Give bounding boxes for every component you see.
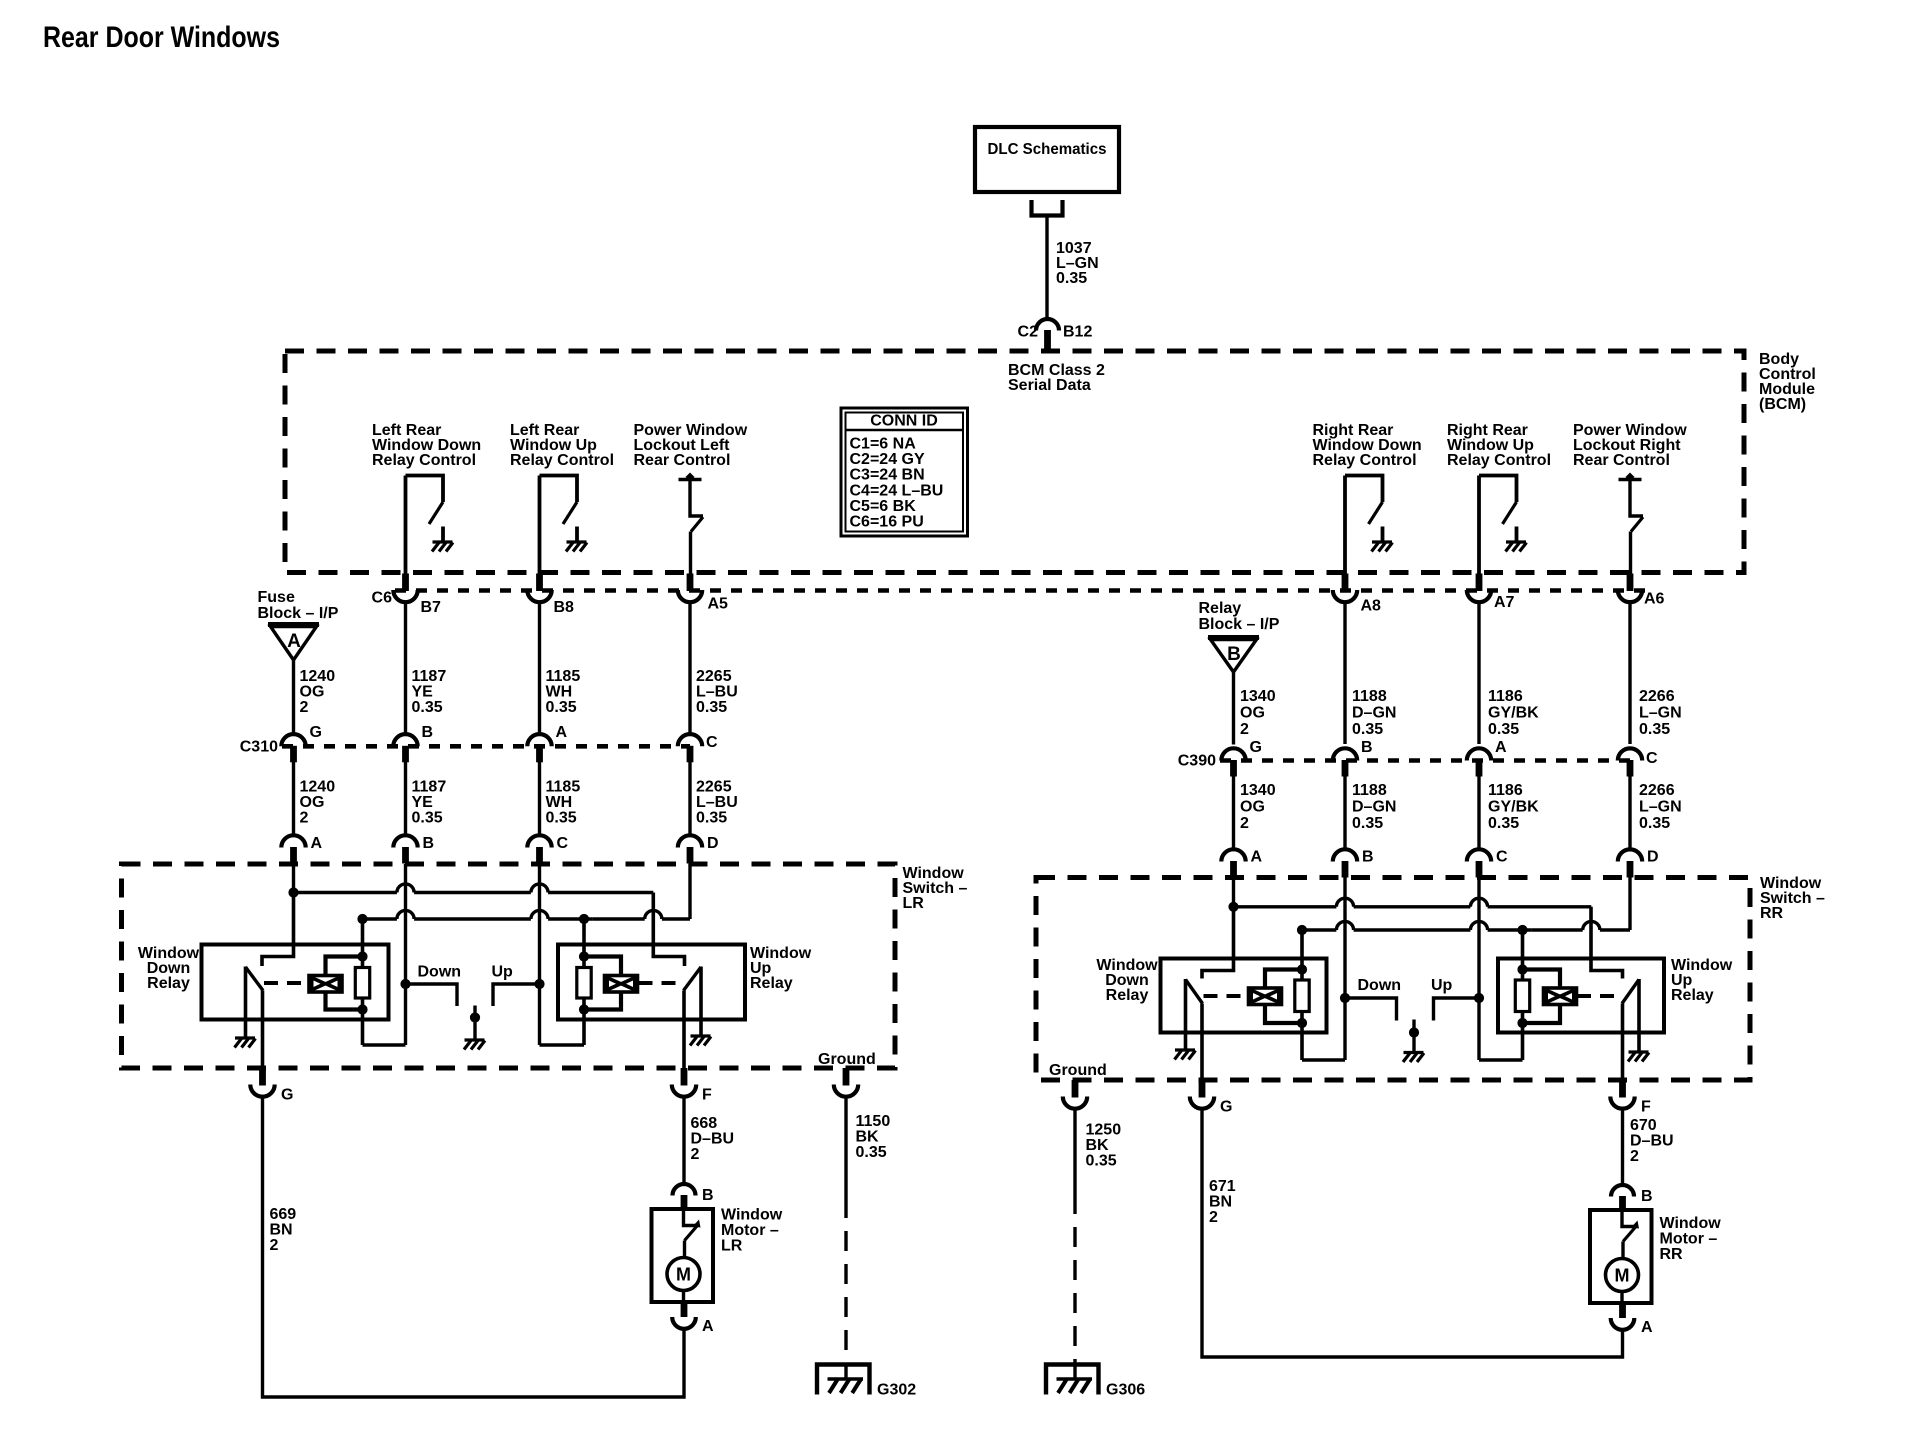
wire RR Window Up coil bottom: [1517, 1005, 1560, 1029]
svg-text:BN: BN: [270, 1222, 293, 1239]
svg-text:B12: B12: [1063, 324, 1092, 341]
svg-text:Relay Control: Relay Control: [510, 452, 614, 469]
relay LR Window Down box: [202, 945, 389, 1020]
relay LR Window Up switch arm: [684, 967, 702, 1036]
wire C390-G down: [1232, 771, 1235, 850]
svg-text:1187: 1187: [412, 668, 447, 685]
svg-text:0.35: 0.35: [1352, 815, 1383, 832]
connector C6 pin at x=539.5: [527, 574, 551, 603]
svg-text:2: 2: [1630, 1148, 1639, 1165]
wire label 1187 YE 0.35 (lower): [412, 779, 447, 827]
svg-text:B: B: [422, 724, 434, 741]
connector Window Switch RR pin C: [1467, 849, 1508, 878]
wire label 1250 BK 0.35: [1086, 1122, 1122, 1170]
connector C6 pin at x=1630: [1618, 574, 1642, 603]
svg-text:C1=6 NA: C1=6 NA: [850, 436, 917, 453]
svg-text:D: D: [1647, 849, 1659, 866]
svg-text:OG: OG: [300, 794, 325, 811]
wire 670 D-BU F to motor B (RR): [1621, 1110, 1624, 1187]
switch Right Rear Window Up relay control (A7) with ground: [1479, 476, 1527, 574]
wire C310-G down: [292, 762, 295, 836]
wire label 2266 L-GN 0.35 (lower): [1639, 782, 1682, 832]
wire label 671 BN 2: [1209, 1178, 1236, 1226]
svg-text:M: M: [1615, 1266, 1630, 1286]
wire LR Window Up relay output: [682, 991, 686, 1069]
connector C390 pin B: [1333, 739, 1373, 777]
relay LR Window Down mechanical link (dashed): [264, 981, 309, 985]
wire label 1188 D-GN 0.35 (lower): [1352, 782, 1396, 832]
connector C310 pin C: [678, 734, 718, 762]
wire LR Window Down coil bottom: [326, 992, 368, 1015]
svg-text:G: G: [1220, 1099, 1232, 1116]
wire 669 BN G to motor A (LR): [263, 1098, 685, 1398]
wire LR Window Down coil return: [363, 1043, 406, 1046]
ground relay LR Window Down: [235, 1038, 256, 1048]
wire label 2265 L-BU 0.35 (lower): [696, 779, 738, 827]
svg-text:Relay: Relay: [1671, 987, 1714, 1004]
svg-text:Motor –: Motor –: [1660, 1231, 1718, 1248]
svg-text:Relay: Relay: [147, 975, 190, 992]
wire feed to RR Window Down NC contact: [1202, 907, 1234, 979]
svg-text:670: 670: [1630, 1117, 1657, 1134]
label Window Motor - RR: [1660, 1215, 1722, 1263]
svg-text:Rear Door Windows: Rear Door Windows: [43, 21, 280, 54]
svg-text:BK: BK: [856, 1129, 880, 1146]
ground G302: [817, 1363, 916, 1399]
relay LR Window Down coil: [309, 976, 342, 993]
label Power Window Lockout Right Rear Control: [1573, 422, 1687, 469]
wire RR Window Up coil return: [1479, 1058, 1523, 1061]
wire label 1186 GY/BK 0.35 (lower): [1488, 782, 1539, 832]
connector C310 pin G: [281, 724, 322, 762]
svg-text:DLC Schematics: DLC Schematics: [988, 141, 1107, 158]
wire relay block B to C390: [1232, 672, 1235, 745]
resistor LR Window Down relay: [355, 919, 369, 1045]
wire A7 to C390: [1477, 603, 1480, 745]
svg-text:Relay Control: Relay Control: [1313, 452, 1417, 469]
connector Window Switch LR pin G: [250, 1068, 293, 1104]
label Left Rear Window Up Relay Control: [510, 422, 614, 469]
wire C390-C down: [1628, 771, 1631, 850]
wire 668 D-BU F to motor B (LR): [682, 1098, 685, 1186]
svg-text:Down: Down: [418, 964, 462, 981]
svg-text:A: A: [1251, 849, 1263, 866]
relay LR Window Up coil: [605, 976, 638, 993]
svg-text:0.35: 0.35: [412, 699, 443, 716]
svg-text:C2=24 GY: C2=24 GY: [850, 451, 925, 468]
svg-text:B: B: [1227, 644, 1241, 665]
svg-text:(BCM): (BCM): [1759, 396, 1806, 413]
switch Left Rear Window Up relay control (B8) with ground: [540, 476, 588, 574]
connector row line C6 (dotted): [395, 588, 1646, 593]
svg-text:0.35: 0.35: [696, 810, 727, 827]
svg-text:0.35: 0.35: [1056, 270, 1087, 287]
switch pole rocker (RR): [1409, 1020, 1419, 1053]
svg-text:1150: 1150: [856, 1113, 891, 1130]
svg-text:1340: 1340: [1240, 688, 1276, 705]
wire rail lockout (RR): [1297, 878, 1630, 936]
component Window Motor - RR: [1590, 1210, 1652, 1303]
svg-text:A: A: [311, 835, 323, 852]
svg-text:Relay Control: Relay Control: [1447, 452, 1551, 469]
switch Power Window Lockout Right Rear (A6): [1619, 473, 1644, 574]
table CONN ID: [841, 408, 968, 536]
svg-text:0.35: 0.35: [696, 699, 727, 716]
relay RR Window Down box: [1161, 959, 1327, 1033]
svg-text:0.35: 0.35: [1488, 815, 1519, 832]
contact Down (RR): [1345, 977, 1401, 1021]
connector Window Switch RR pin B: [1333, 849, 1374, 878]
wire B8 to C310: [538, 603, 541, 735]
wire B column through switch (RR): [1340, 878, 1350, 1061]
svg-text:C2: C2: [1018, 324, 1039, 341]
ground G306: [1046, 1363, 1145, 1399]
switch Right Rear Window Down relay control (A8) with ground: [1345, 476, 1393, 574]
switch pole rocker (LR): [470, 1006, 480, 1041]
svg-text:G: G: [281, 1087, 293, 1104]
svg-text:A6: A6: [1644, 591, 1665, 608]
svg-text:C: C: [1646, 750, 1658, 767]
svg-text:0.35: 0.35: [1639, 815, 1670, 832]
relay RR Window Up mechanical link (dashed): [1577, 994, 1622, 998]
wire RR Window Up coil top: [1517, 964, 1560, 988]
svg-text:Up: Up: [1431, 977, 1453, 994]
wire A6 to C390: [1628, 603, 1631, 745]
wire C column through switch (LR): [534, 864, 544, 1045]
switch Power Window Lockout Left Rear (A5): [679, 473, 704, 574]
wire rail lockout (LR): [357, 864, 690, 924]
connector Window Switch RR pin Ground: [1063, 1080, 1087, 1109]
relay LR Window Up box: [558, 945, 745, 1020]
relay LR Window Up mechanical link (dashed): [639, 981, 684, 985]
wire label 668 D-BU 2: [691, 1115, 735, 1163]
svg-text:A5: A5: [708, 596, 729, 613]
connector Window Switch RR pin G: [1190, 1080, 1233, 1116]
wire LR Window Up coil top: [579, 951, 621, 975]
label Window Motor - LR: [721, 1207, 783, 1255]
connector Window Motor RR pin A: [1611, 1304, 1653, 1337]
svg-text:D–GN: D–GN: [1352, 705, 1396, 722]
svg-text:C4=24 L–BU: C4=24 L–BU: [850, 482, 944, 499]
svg-text:L–GN: L–GN: [1639, 799, 1682, 816]
svg-text:A: A: [1641, 1319, 1653, 1336]
svg-text:Relay Control: Relay Control: [372, 452, 476, 469]
svg-text:Window: Window: [1660, 1215, 1722, 1232]
svg-text:1240: 1240: [300, 779, 336, 796]
connector C310 pin B: [393, 724, 433, 762]
svg-text:OG: OG: [1240, 799, 1265, 816]
contact Up (RR): [1431, 977, 1479, 1021]
svg-text:G: G: [310, 724, 322, 741]
connector Window Switch LR pin B: [393, 835, 434, 864]
svg-text:B: B: [1362, 849, 1374, 866]
wire C310-A down: [538, 762, 541, 836]
svg-text:M: M: [676, 1265, 691, 1285]
label Ground (RR): [1049, 1062, 1107, 1079]
svg-text:YE: YE: [412, 684, 434, 701]
svg-text:C6: C6: [372, 590, 393, 607]
svg-text:0.35: 0.35: [1086, 1153, 1117, 1170]
wire label 2266 L-GN 0.35 (upper): [1639, 688, 1682, 738]
svg-text:Rear Control: Rear Control: [634, 452, 731, 469]
svg-text:0.35: 0.35: [546, 699, 577, 716]
wire C310-B down: [404, 762, 407, 836]
svg-text:1185: 1185: [546, 668, 581, 685]
wire 1250 BK ground (RR): [1073, 1110, 1076, 1363]
wire A8 to C390: [1343, 603, 1346, 745]
wire C390-B down: [1343, 771, 1346, 850]
svg-text:0.35: 0.35: [1352, 721, 1383, 738]
svg-text:A: A: [1495, 739, 1507, 756]
svg-text:1188: 1188: [1352, 782, 1387, 799]
wire RR Window Down relay output: [1200, 1004, 1204, 1081]
svg-text:D–BU: D–BU: [691, 1131, 735, 1148]
connector C6 pin at x=690: [678, 574, 702, 603]
svg-text:LR: LR: [903, 895, 925, 912]
label Window Down Relay (RR): [1096, 957, 1158, 1004]
switch Left Rear Window Down relay control (B7) with ground: [406, 476, 454, 574]
wire rail B+ feed (LR): [288, 864, 653, 898]
connector Window Switch LR pin C: [527, 835, 568, 864]
svg-text:669: 669: [270, 1206, 297, 1223]
svg-text:B: B: [1361, 739, 1373, 756]
wire label 1185 WH 0.35 (upper): [546, 668, 581, 716]
svg-text:B8: B8: [554, 599, 575, 616]
svg-text:1185: 1185: [546, 779, 581, 796]
ground relay RR Window Up: [1628, 1052, 1649, 1062]
connector Window Switch LR pin D: [678, 835, 719, 864]
connector bracket under DLC box: [1032, 200, 1063, 216]
relay RR Window Down coil: [1249, 988, 1282, 1005]
label Window Up Relay (LR): [750, 945, 812, 992]
svg-text:LR: LR: [721, 1238, 743, 1255]
ground rocker pole (LR): [464, 1040, 485, 1050]
svg-text:OG: OG: [300, 684, 325, 701]
svg-text:F: F: [702, 1087, 712, 1104]
label Body Control Module (BCM): [1759, 351, 1816, 413]
svg-text:2266: 2266: [1639, 782, 1675, 799]
svg-text:2265: 2265: [696, 668, 732, 685]
svg-text:2: 2: [1209, 1209, 1218, 1226]
wire label 1340 OG 2 (upper): [1240, 688, 1276, 738]
svg-text:Relay: Relay: [1199, 600, 1242, 617]
wire label 1240 OG 2 (lower): [300, 779, 336, 827]
label Right Rear Window Down Relay Control: [1313, 422, 1422, 469]
svg-text:Up: Up: [492, 964, 514, 981]
svg-text:C: C: [1496, 849, 1508, 866]
wire B column through switch (LR): [400, 864, 410, 1045]
svg-text:Window: Window: [721, 1207, 783, 1224]
svg-text:OG: OG: [1240, 705, 1265, 722]
svg-text:CONN ID: CONN ID: [870, 413, 938, 430]
svg-text:668: 668: [691, 1115, 718, 1132]
wire label 669 BN 2: [270, 1206, 297, 1254]
svg-text:Rear Control: Rear Control: [1573, 452, 1670, 469]
net BCM Class 2 Serial Data: [1008, 362, 1105, 394]
svg-text:0.35: 0.35: [412, 810, 443, 827]
connector Window Switch LR pin F: [672, 1068, 712, 1104]
svg-text:Motor –: Motor –: [721, 1222, 779, 1239]
wire fuse A to C310: [292, 660, 295, 735]
wire C column through switch (RR): [1474, 878, 1484, 1061]
svg-text:BN: BN: [1209, 1194, 1232, 1211]
svg-text:0.35: 0.35: [856, 1144, 887, 1161]
wire label 670 D-BU 2: [1630, 1117, 1674, 1165]
wire LR Window Up coil bottom: [579, 992, 621, 1015]
connector Window Switch LR pin A: [281, 835, 322, 864]
svg-text:A: A: [556, 724, 568, 741]
svg-text:1186: 1186: [1488, 688, 1523, 705]
svg-text:G302: G302: [877, 1382, 916, 1399]
svg-text:2266: 2266: [1639, 688, 1675, 705]
module Window Switch - LR box: [122, 864, 896, 1068]
svg-text:1186: 1186: [1488, 782, 1523, 799]
svg-text:2: 2: [1240, 815, 1249, 832]
label Left Rear Window Down Relay Control: [372, 422, 481, 469]
svg-text:C: C: [706, 734, 718, 751]
svg-text:Down: Down: [1358, 977, 1402, 994]
wire LR Window Down coil top: [326, 951, 368, 975]
contact Up (LR): [492, 964, 540, 1007]
connector C390 pin C: [1618, 748, 1658, 776]
svg-text:L–BU: L–BU: [696, 684, 738, 701]
svg-text:RR: RR: [1660, 1246, 1684, 1263]
svg-text:Serial Data: Serial Data: [1008, 377, 1091, 394]
svg-text:F: F: [1641, 1099, 1651, 1116]
wire label 1037 L-GN 0.35: [1056, 240, 1099, 287]
module Body Control Module box: [285, 351, 1744, 573]
module DLC Schematics box: [975, 127, 1119, 192]
wire label 1150 BK 0.35: [856, 1113, 891, 1161]
connector Window Motor LR pin B: [673, 1184, 714, 1208]
connector C2 B12: [1018, 319, 1093, 351]
connector C390 pin A: [1467, 739, 1507, 777]
connector Window Switch RR pin A: [1221, 849, 1262, 878]
wire B7 to C310: [404, 603, 407, 735]
wire DLC to C2 connector: [1045, 216, 1048, 321]
wire C310-C down: [688, 762, 691, 836]
svg-text:Block – I/P: Block – I/P: [258, 605, 339, 622]
svg-text:G306: G306: [1106, 1382, 1145, 1399]
svg-text:A8: A8: [1361, 598, 1382, 615]
relay RR Window Up coil: [1544, 988, 1577, 1005]
svg-text:A: A: [287, 631, 301, 652]
svg-text:BK: BK: [1086, 1137, 1110, 1154]
svg-text:C6=16 PU: C6=16 PU: [850, 514, 924, 531]
svg-text:Block – I/P: Block – I/P: [1199, 616, 1280, 633]
svg-text:B: B: [702, 1187, 714, 1204]
svg-text:B: B: [423, 835, 435, 852]
wire 671 BN G to motor A (RR): [1202, 1110, 1623, 1358]
svg-text:G: G: [1250, 739, 1262, 756]
svg-text:1188: 1188: [1352, 688, 1387, 705]
label Window Switch - RR: [1760, 875, 1825, 922]
svg-text:YE: YE: [412, 794, 434, 811]
svg-text:0.35: 0.35: [1639, 721, 1670, 738]
wire LR Window Down relay output: [261, 991, 265, 1069]
wire label 1185 WH 0.35 (lower): [546, 779, 581, 827]
label Right Rear Window Up Relay Control: [1447, 422, 1551, 469]
label Power Window Lockout Left Rear Control: [634, 422, 748, 469]
svg-text:1240: 1240: [300, 668, 336, 685]
svg-text:0.35: 0.35: [546, 810, 577, 827]
wire RR Window Down coil top: [1265, 964, 1307, 988]
svg-text:GY/BK: GY/BK: [1488, 705, 1539, 722]
svg-text:GY/BK: GY/BK: [1488, 799, 1539, 816]
svg-text:C390: C390: [1178, 753, 1216, 770]
svg-text:2: 2: [1240, 721, 1249, 738]
svg-text:1250: 1250: [1086, 1122, 1122, 1139]
svg-text:0.35: 0.35: [1488, 721, 1519, 738]
wire label 1188 D-GN 0.35 (upper): [1352, 688, 1396, 738]
wire label 1187 YE 0.35 (upper): [412, 668, 447, 716]
svg-text:A7: A7: [1494, 594, 1515, 611]
svg-text:C5=6 BK: C5=6 BK: [850, 498, 917, 515]
svg-text:B7: B7: [421, 599, 442, 616]
svg-text:A: A: [702, 1318, 714, 1335]
wire RR Window Up relay output: [1621, 1004, 1625, 1081]
connector C6 pin at x=405.5: [393, 574, 417, 603]
svg-text:Ground: Ground: [818, 1051, 876, 1068]
svg-text:WH: WH: [546, 684, 573, 701]
connector C6 pin at x=1479: [1467, 574, 1491, 603]
connector C6 pin at x=1345: [1333, 574, 1357, 603]
svg-text:D–BU: D–BU: [1630, 1133, 1674, 1150]
resistor RR Window Down relay: [1295, 930, 1309, 1060]
contact Down (LR): [406, 964, 462, 1007]
label Window Up Relay (RR): [1671, 957, 1733, 1004]
ground relay RR Window Down: [1175, 1050, 1196, 1060]
wire feed to LR Window Down NC contact: [262, 893, 294, 967]
svg-text:2: 2: [300, 699, 309, 716]
module Window Switch - RR box: [1036, 878, 1750, 1081]
wire C390-A down: [1477, 771, 1480, 850]
connector Window Motor RR pin B: [1611, 1185, 1653, 1209]
svg-text:WH: WH: [546, 794, 573, 811]
svg-text:Fuse: Fuse: [258, 589, 295, 606]
svg-text:1187: 1187: [412, 779, 447, 796]
svg-text:B: B: [1641, 1188, 1653, 1205]
connector C390 pin G: [1221, 739, 1262, 777]
svg-text:C310: C310: [240, 739, 278, 756]
wire label 1240 OG 2 (upper): [300, 668, 336, 716]
wire feed to LR Window Up NC contact: [653, 893, 684, 967]
connector Window Motor LR pin A: [672, 1303, 714, 1336]
wire feed to RR Window Up NC contact: [1591, 907, 1623, 979]
component Window Motor - LR: [652, 1209, 714, 1302]
wire RR Window Down coil return: [1302, 1058, 1345, 1061]
svg-text:2: 2: [300, 810, 309, 827]
connector row line C390 (dotted): [1220, 758, 1630, 763]
connector Window Switch RR pin F: [1610, 1080, 1651, 1116]
component Fuse Block - I/P: [258, 589, 339, 660]
resistor RR Window Up relay: [1515, 930, 1529, 1060]
wire A5 to C310: [688, 603, 691, 735]
wire 1150 BK ground (LR): [844, 1098, 847, 1363]
wire RR Window Down coil bottom: [1265, 1005, 1307, 1029]
wire rail B+ feed (RR): [1228, 878, 1591, 912]
resistor LR Window Up relay: [577, 919, 591, 1045]
relay RR Window Down switch arm: [1186, 979, 1203, 1050]
ground relay LR Window Up: [690, 1036, 711, 1046]
svg-text:RR: RR: [1760, 905, 1784, 922]
connector row line C310 (dotted): [282, 744, 690, 749]
svg-text:D: D: [707, 835, 719, 852]
label Window Down Relay (LR): [138, 945, 200, 992]
wire label 1340 OG 2 (lower): [1240, 782, 1276, 832]
svg-text:Relay: Relay: [1106, 987, 1149, 1004]
svg-text:L–BU: L–BU: [696, 794, 738, 811]
